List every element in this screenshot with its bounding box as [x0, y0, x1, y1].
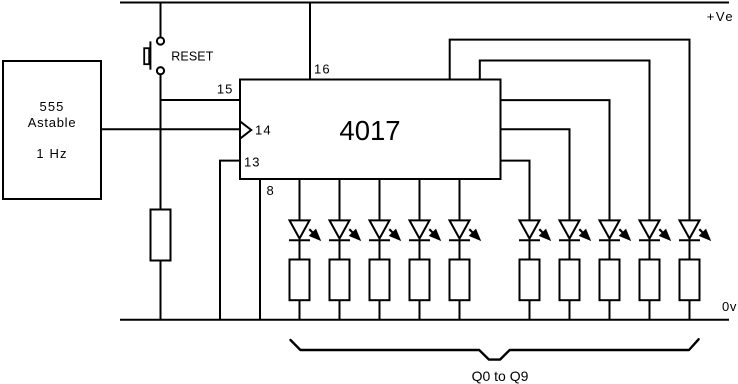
wire resistor R7 to 0v rail	[529, 300, 531, 319]
wire LED D2 to resistor R3	[339, 240, 341, 259]
wire 4017 pin 13 to 0v rail	[220, 161, 240, 320]
resistor R2	[290, 260, 310, 301]
resistor R5	[410, 260, 430, 301]
wire 4017 output Q8 to LED9	[480, 61, 650, 222]
wire LED D7 to resistor R8	[569, 240, 571, 259]
wire resistor R5 to 0v rail	[419, 300, 421, 319]
resistor R6	[450, 260, 470, 301]
push switch S1 actuator button	[144, 48, 149, 64]
LED D3	[369, 220, 400, 240]
LED D9	[639, 220, 670, 240]
wire 4017 output Q2 to LED3	[379, 179, 381, 221]
wire +Ve supply rail (top)	[120, 2, 729, 4]
wire LED D8 to resistor R9	[609, 240, 611, 259]
wire 4017 output Q7 to LED8	[501, 100, 610, 221]
resistor R9	[600, 260, 620, 301]
wire reset node to 4017 pin 15	[161, 99, 241, 101]
push switch S1 contact bar	[149, 41, 151, 69]
resistor R3	[330, 260, 350, 301]
svg-text:RESET: RESET	[171, 50, 213, 64]
LED D2	[329, 220, 360, 240]
wire resistor R10 to 0v rail	[649, 300, 651, 319]
LED D5	[449, 220, 480, 240]
svg-text:13: 13	[244, 155, 260, 170]
resistor R10	[640, 260, 660, 301]
wire supply rail to 4017 pin 16	[309, 3, 311, 80]
wire resistor R2 to 0v rail	[299, 300, 301, 319]
resistor R7	[520, 260, 540, 301]
wire resistor R11 to 0v rail	[689, 300, 691, 319]
push switch S1 (RESET) terminal circle top	[157, 37, 164, 44]
LED D4	[409, 220, 440, 240]
wire resistor R4 to 0v rail	[379, 300, 381, 319]
svg-text:+Ve: +Ve	[707, 9, 734, 24]
clock input chevron pin 14	[240, 121, 251, 138]
wire 4017 output Q5 to LED6	[501, 161, 530, 221]
svg-text:0v: 0v	[722, 299, 737, 314]
wire switch S1 to resistor R1 / pin 15 node	[160, 75, 162, 210]
wire LED D5 to resistor R6	[459, 240, 461, 259]
wire resistor R1 to 0v rail	[160, 261, 162, 320]
wire LED D10 to resistor R11	[689, 240, 691, 259]
resistor R4	[370, 260, 390, 301]
wire resistor R6 to 0v rail	[459, 300, 461, 319]
wire 4017 output Q9 to LED10	[450, 40, 690, 221]
svg-text:555: 555	[40, 99, 65, 114]
LED D7	[559, 220, 590, 240]
push switch S1 terminal circle bottom	[157, 67, 164, 74]
wire 4017 output Q0 to LED1	[299, 179, 301, 221]
wire LED D4 to resistor R5	[419, 240, 421, 259]
svg-text:4017: 4017	[339, 115, 400, 146]
wire 4017 output Q1 to LED2	[339, 179, 341, 221]
wire 4017 output Q6 to LED7	[501, 129, 570, 221]
resistor R1 (pull-down)	[151, 210, 171, 261]
wire 4017 pin 8 to 0v rail	[259, 179, 261, 320]
svg-text:Astable: Astable	[28, 115, 77, 130]
wire 4017 output Q4 to LED5	[459, 179, 461, 221]
wire U1 output to 4017 pin 14 clock	[101, 128, 240, 130]
wire LED D3 to resistor R4	[379, 240, 381, 259]
IC U1 555 astable box	[3, 61, 101, 199]
wire 0v ground rail (bottom)	[120, 319, 729, 321]
LED D8	[599, 220, 630, 240]
svg-text:16: 16	[314, 62, 331, 77]
svg-text:14: 14	[255, 123, 272, 138]
svg-text:1 Hz: 1 Hz	[36, 146, 67, 161]
LED D6	[519, 220, 550, 240]
IC U2 4017 decade counter box	[240, 80, 501, 180]
wire resistor R8 to 0v rail	[569, 300, 571, 319]
svg-text:Q0 to Q9: Q0 to Q9	[472, 368, 529, 384]
wire LED D6 to resistor R7	[529, 240, 531, 259]
wire 4017 output Q3 to LED4	[419, 179, 421, 221]
brace Q0 to Q9 group	[291, 339, 699, 359]
LED D1	[289, 220, 320, 240]
wire LED D9 to resistor R10	[649, 240, 651, 259]
LED D10	[679, 220, 710, 240]
resistor R8	[560, 260, 580, 301]
wire supply to switch S1	[160, 3, 162, 38]
wire resistor R9 to 0v rail	[609, 300, 611, 319]
wire LED D1 to resistor R2	[299, 240, 301, 259]
wire resistor R3 to 0v rail	[339, 300, 341, 319]
svg-text:8: 8	[267, 183, 274, 198]
resistor R11	[680, 260, 700, 301]
svg-text:15: 15	[217, 82, 234, 97]
